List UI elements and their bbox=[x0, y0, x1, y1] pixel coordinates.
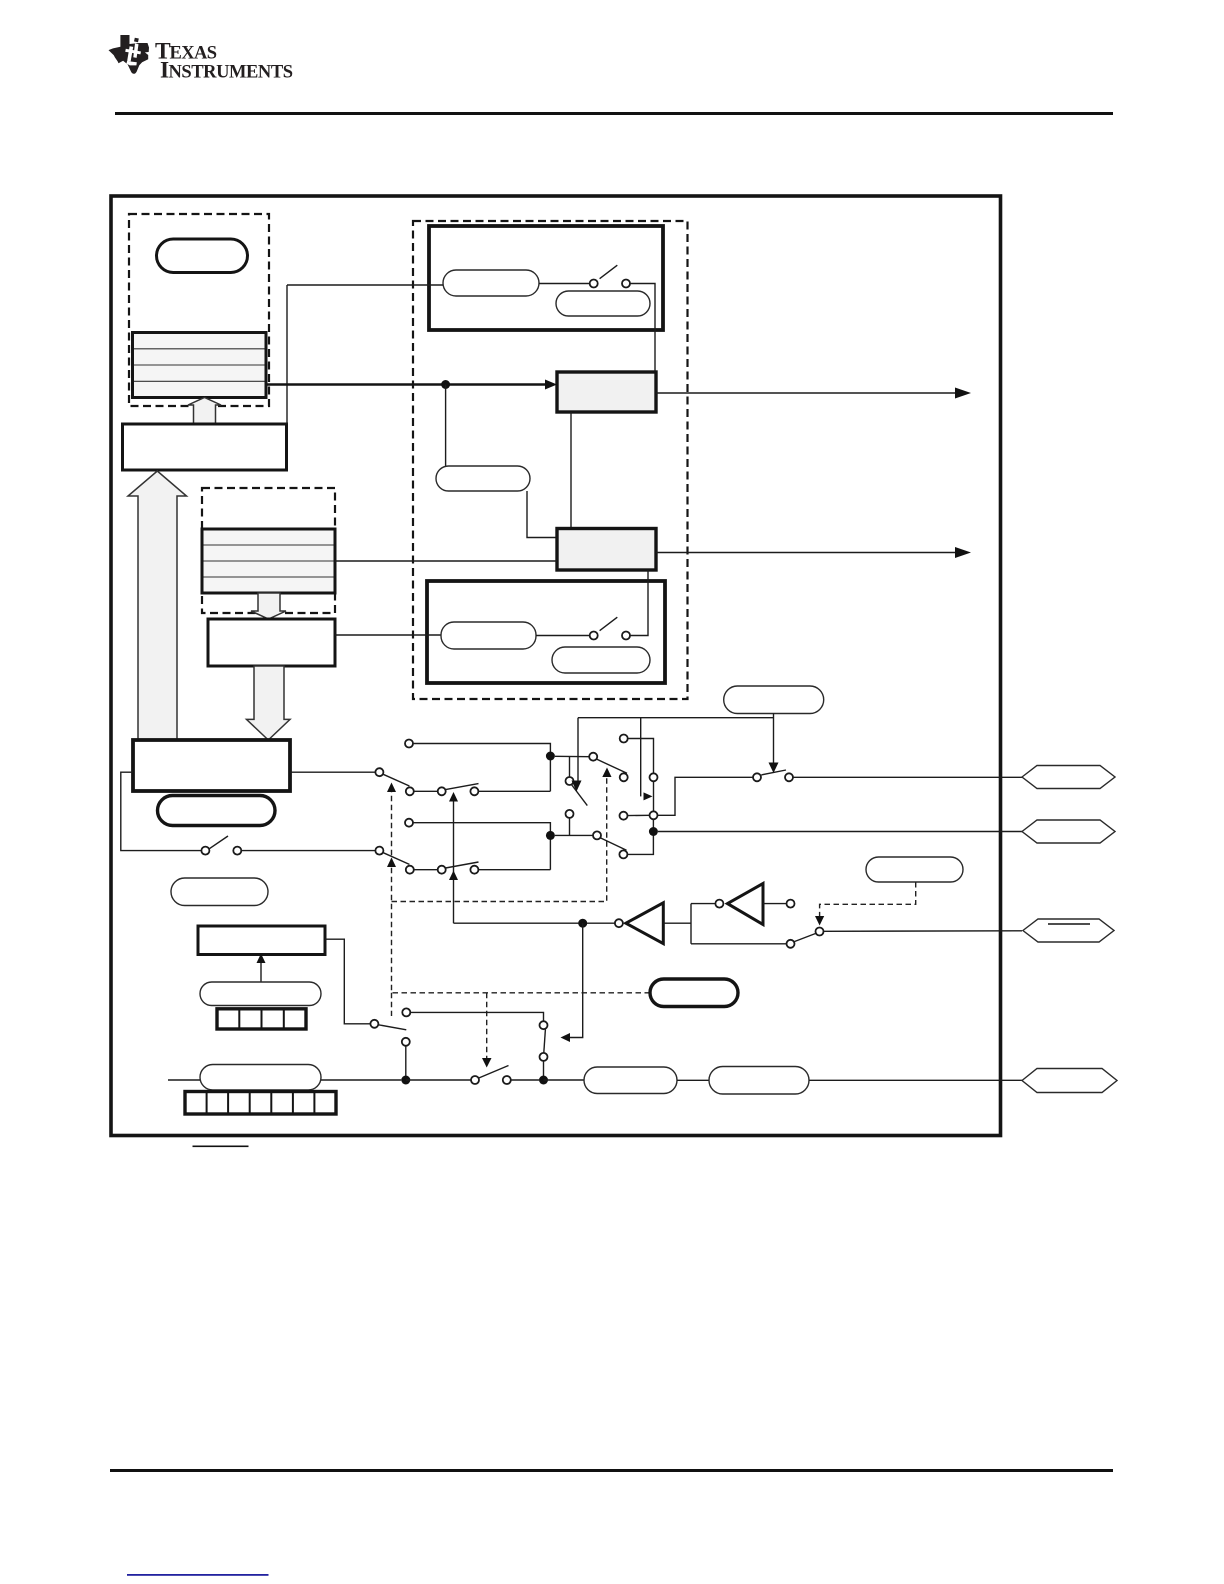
control from input dot down to SV3 arrow bbox=[561, 923, 583, 1042]
svg-text:NSTRUMENTS: NSTRUMENTS bbox=[169, 63, 294, 83]
wire switch to SH1 bbox=[630, 284, 655, 373]
SR1 output arrow into SH1 bbox=[266, 380, 557, 390]
SV2 control arrow bbox=[641, 718, 653, 801]
header rule bbox=[115, 112, 1113, 115]
main box R_main bbox=[133, 740, 290, 791]
output arrow 1 bbox=[656, 388, 971, 399]
shaded box SH2 bbox=[557, 529, 656, 571]
wire into TB1 stadium A bbox=[287, 284, 443, 286]
TEXAS INSTRUMENTS wordmark bbox=[155, 39, 293, 84]
stadium ST3 bbox=[171, 878, 268, 906]
vertical switch SV1 bbox=[566, 757, 588, 836]
switch SM2 bbox=[593, 831, 627, 850]
SR2 output wire into SH2 bbox=[335, 560, 557, 562]
wire SW_I to pin H3 bbox=[824, 930, 1023, 933]
bottom data wire ST4 to dot bbox=[321, 1079, 401, 1081]
stadium ST5 bbox=[200, 982, 321, 1006]
switch in TB1 bbox=[590, 265, 630, 287]
TI logo bug bbox=[109, 35, 150, 74]
ST1 control arrow down to SW_H bbox=[769, 713, 779, 773]
pin hexagon H2 bbox=[1022, 820, 1115, 843]
switch SW_K bbox=[471, 1066, 511, 1085]
thick box TB2 bbox=[427, 581, 665, 683]
arrow ST5 to R_ctr bbox=[257, 954, 266, 983]
switch SW_C bbox=[201, 836, 241, 855]
junction dot row2 bbox=[546, 831, 555, 840]
wire switch up to SH2 bbox=[630, 570, 648, 636]
control stadium ST7 bbox=[866, 857, 963, 882]
SV2 bottom to SW_H path bbox=[658, 777, 754, 815]
pin hexagon H4 bbox=[1022, 1069, 1117, 1093]
small block arrow down DA2 bbox=[251, 593, 286, 619]
SM2 throw-down contact T3 bbox=[619, 819, 653, 858]
wire B2 to pin H4 bbox=[809, 1079, 1022, 1081]
junction dot to pin H2 bbox=[649, 827, 1022, 836]
node row1 upper contact bbox=[405, 740, 550, 792]
wire stadiumA to switch bbox=[539, 283, 590, 285]
switch SW_I lever and pin contact bbox=[794, 928, 823, 942]
SM2 throw-up contact T2 bbox=[620, 812, 650, 820]
vertical switch SV2 (closed) bbox=[650, 773, 658, 819]
pin hexagon H1 bbox=[1022, 766, 1115, 789]
switch in TB2 bbox=[590, 617, 630, 639]
bit counter box R_ctr bbox=[198, 926, 325, 955]
pin hexagon H3 (active-low overbar) bbox=[1023, 919, 1114, 942]
dashed control branch to SW_K bbox=[482, 993, 492, 1068]
junction dot bottom wire bbox=[401, 1076, 410, 1085]
output driver U2 (left-pointing with bubble) bbox=[691, 884, 763, 925]
wire dot to SM1 pole bbox=[555, 755, 589, 757]
SW_J throw-up contact to SV3 bbox=[402, 1008, 543, 1021]
wire U1 to node bbox=[663, 922, 691, 924]
stadium ST4 bbox=[200, 1065, 321, 1091]
row1 lower contact and SM_A switch bbox=[406, 784, 551, 796]
wire SB2 to stadium C bbox=[335, 634, 441, 636]
SW_J throw-down contact to data wire bbox=[402, 1038, 410, 1080]
wire junction to B1 bbox=[544, 1079, 585, 1081]
stadium A in TB1 bbox=[443, 270, 539, 296]
wire R_main left loop to SW_C bbox=[121, 772, 202, 850]
control stadium ST1 bbox=[724, 686, 824, 714]
small block arrow up UA2 bbox=[188, 398, 221, 425]
stadium C in TB2 bbox=[441, 622, 536, 649]
dashed control from ST6 up to SW_A/SW_B bbox=[387, 783, 650, 1017]
bold stadium ST2 bbox=[158, 796, 276, 826]
switch SW_J bbox=[370, 1020, 406, 1030]
wire R_main right to SW_A bbox=[290, 771, 375, 773]
switch SW_B bbox=[375, 847, 409, 865]
SV1 control arrow from wire718 bbox=[572, 718, 582, 792]
shaded box SH1 bbox=[557, 372, 656, 412]
big block arrow up UA1 bbox=[128, 471, 187, 740]
stadium B2 bbox=[709, 1067, 809, 1095]
row2 lower contact and SM_B switch bbox=[406, 862, 551, 874]
thick box TB1 bbox=[429, 226, 663, 330]
cell strip 1 (4 cells) bbox=[217, 1009, 306, 1029]
solid control line to SM_A/SM_B and input path bbox=[449, 792, 458, 923]
solid box SB2 bbox=[208, 619, 335, 666]
wire dot to SW_K bbox=[406, 1079, 471, 1081]
wire SH1 to SH2 bbox=[570, 412, 572, 529]
wire R_ctr to SW_J bbox=[325, 939, 370, 1024]
wire SW_H to pin H1 bbox=[793, 776, 1022, 778]
input buffer U1 (left-pointing with bubble) bbox=[615, 903, 663, 944]
wire SW_C to SW_B bbox=[241, 850, 375, 852]
wire U2 input to contact bbox=[763, 900, 795, 908]
solid box SB1 bbox=[123, 424, 287, 470]
svg-text:EXAS: EXAS bbox=[170, 44, 218, 64]
cell strip 2 (7 cells) bbox=[185, 1092, 336, 1115]
wire node to SW_I contact bbox=[691, 940, 795, 948]
footer link underline (blue) bbox=[127, 1574, 269, 1576]
switch SM1 bbox=[589, 753, 627, 774]
junction dot SV3 on data wire bbox=[539, 1076, 548, 1085]
junction dot row1 bbox=[546, 752, 555, 761]
dashed box DB1 (top-left) bbox=[129, 214, 269, 406]
big block arrow down DA1 bbox=[247, 666, 291, 740]
OSC stadium bbox=[436, 466, 530, 491]
striped register SR1 bbox=[133, 333, 267, 398]
SM1 throw-up contact T1 to SV2 top bbox=[620, 735, 654, 774]
vertical wire x287 down to SB1 bbox=[286, 285, 288, 424]
diagram outer border bbox=[111, 196, 1001, 1136]
stadium D in TB2 bbox=[552, 647, 650, 673]
switch SW_A bbox=[375, 768, 409, 786]
wire OSC to SH2 bbox=[527, 491, 557, 538]
stadium B in TB1 bbox=[556, 291, 650, 316]
dashed box DB2 (mid-left) bbox=[202, 488, 335, 613]
footer rule bbox=[110, 1469, 1113, 1472]
footnote underline below diagram bbox=[193, 1146, 249, 1148]
SM1 throw-down contact (nc) bbox=[620, 773, 628, 781]
wire SW_K to junction bbox=[511, 1079, 539, 1081]
bottom data wire left stub bbox=[168, 1079, 200, 1081]
striped register SR2 bbox=[202, 529, 335, 593]
wire dot2 to SM2 pole bbox=[555, 834, 593, 836]
wire junction down to OSC stadium bbox=[445, 385, 447, 467]
bold stadium ST6 bbox=[650, 979, 738, 1007]
wire stadium C to switch bbox=[536, 635, 590, 637]
bold stadium BS1 bbox=[157, 239, 248, 273]
switch SW_H bbox=[753, 770, 793, 781]
dashed box DB3 (big right) bbox=[413, 221, 688, 699]
dashed control ST7 to SW_I bbox=[815, 882, 916, 926]
control wire y718 bbox=[578, 717, 774, 719]
stadium B1 bbox=[584, 1067, 677, 1094]
node vertical U1/U2 bbox=[690, 904, 692, 944]
vertical switch SV3 bbox=[540, 1021, 548, 1080]
output arrow 2 bbox=[656, 547, 971, 558]
junction dot input bbox=[578, 919, 587, 928]
dashed control branch to SM1 bbox=[392, 768, 612, 902]
wire B1 to B2 bbox=[677, 1079, 709, 1081]
row2 upper contact bbox=[405, 819, 550, 870]
input wire to buffer U1 bbox=[454, 922, 615, 924]
